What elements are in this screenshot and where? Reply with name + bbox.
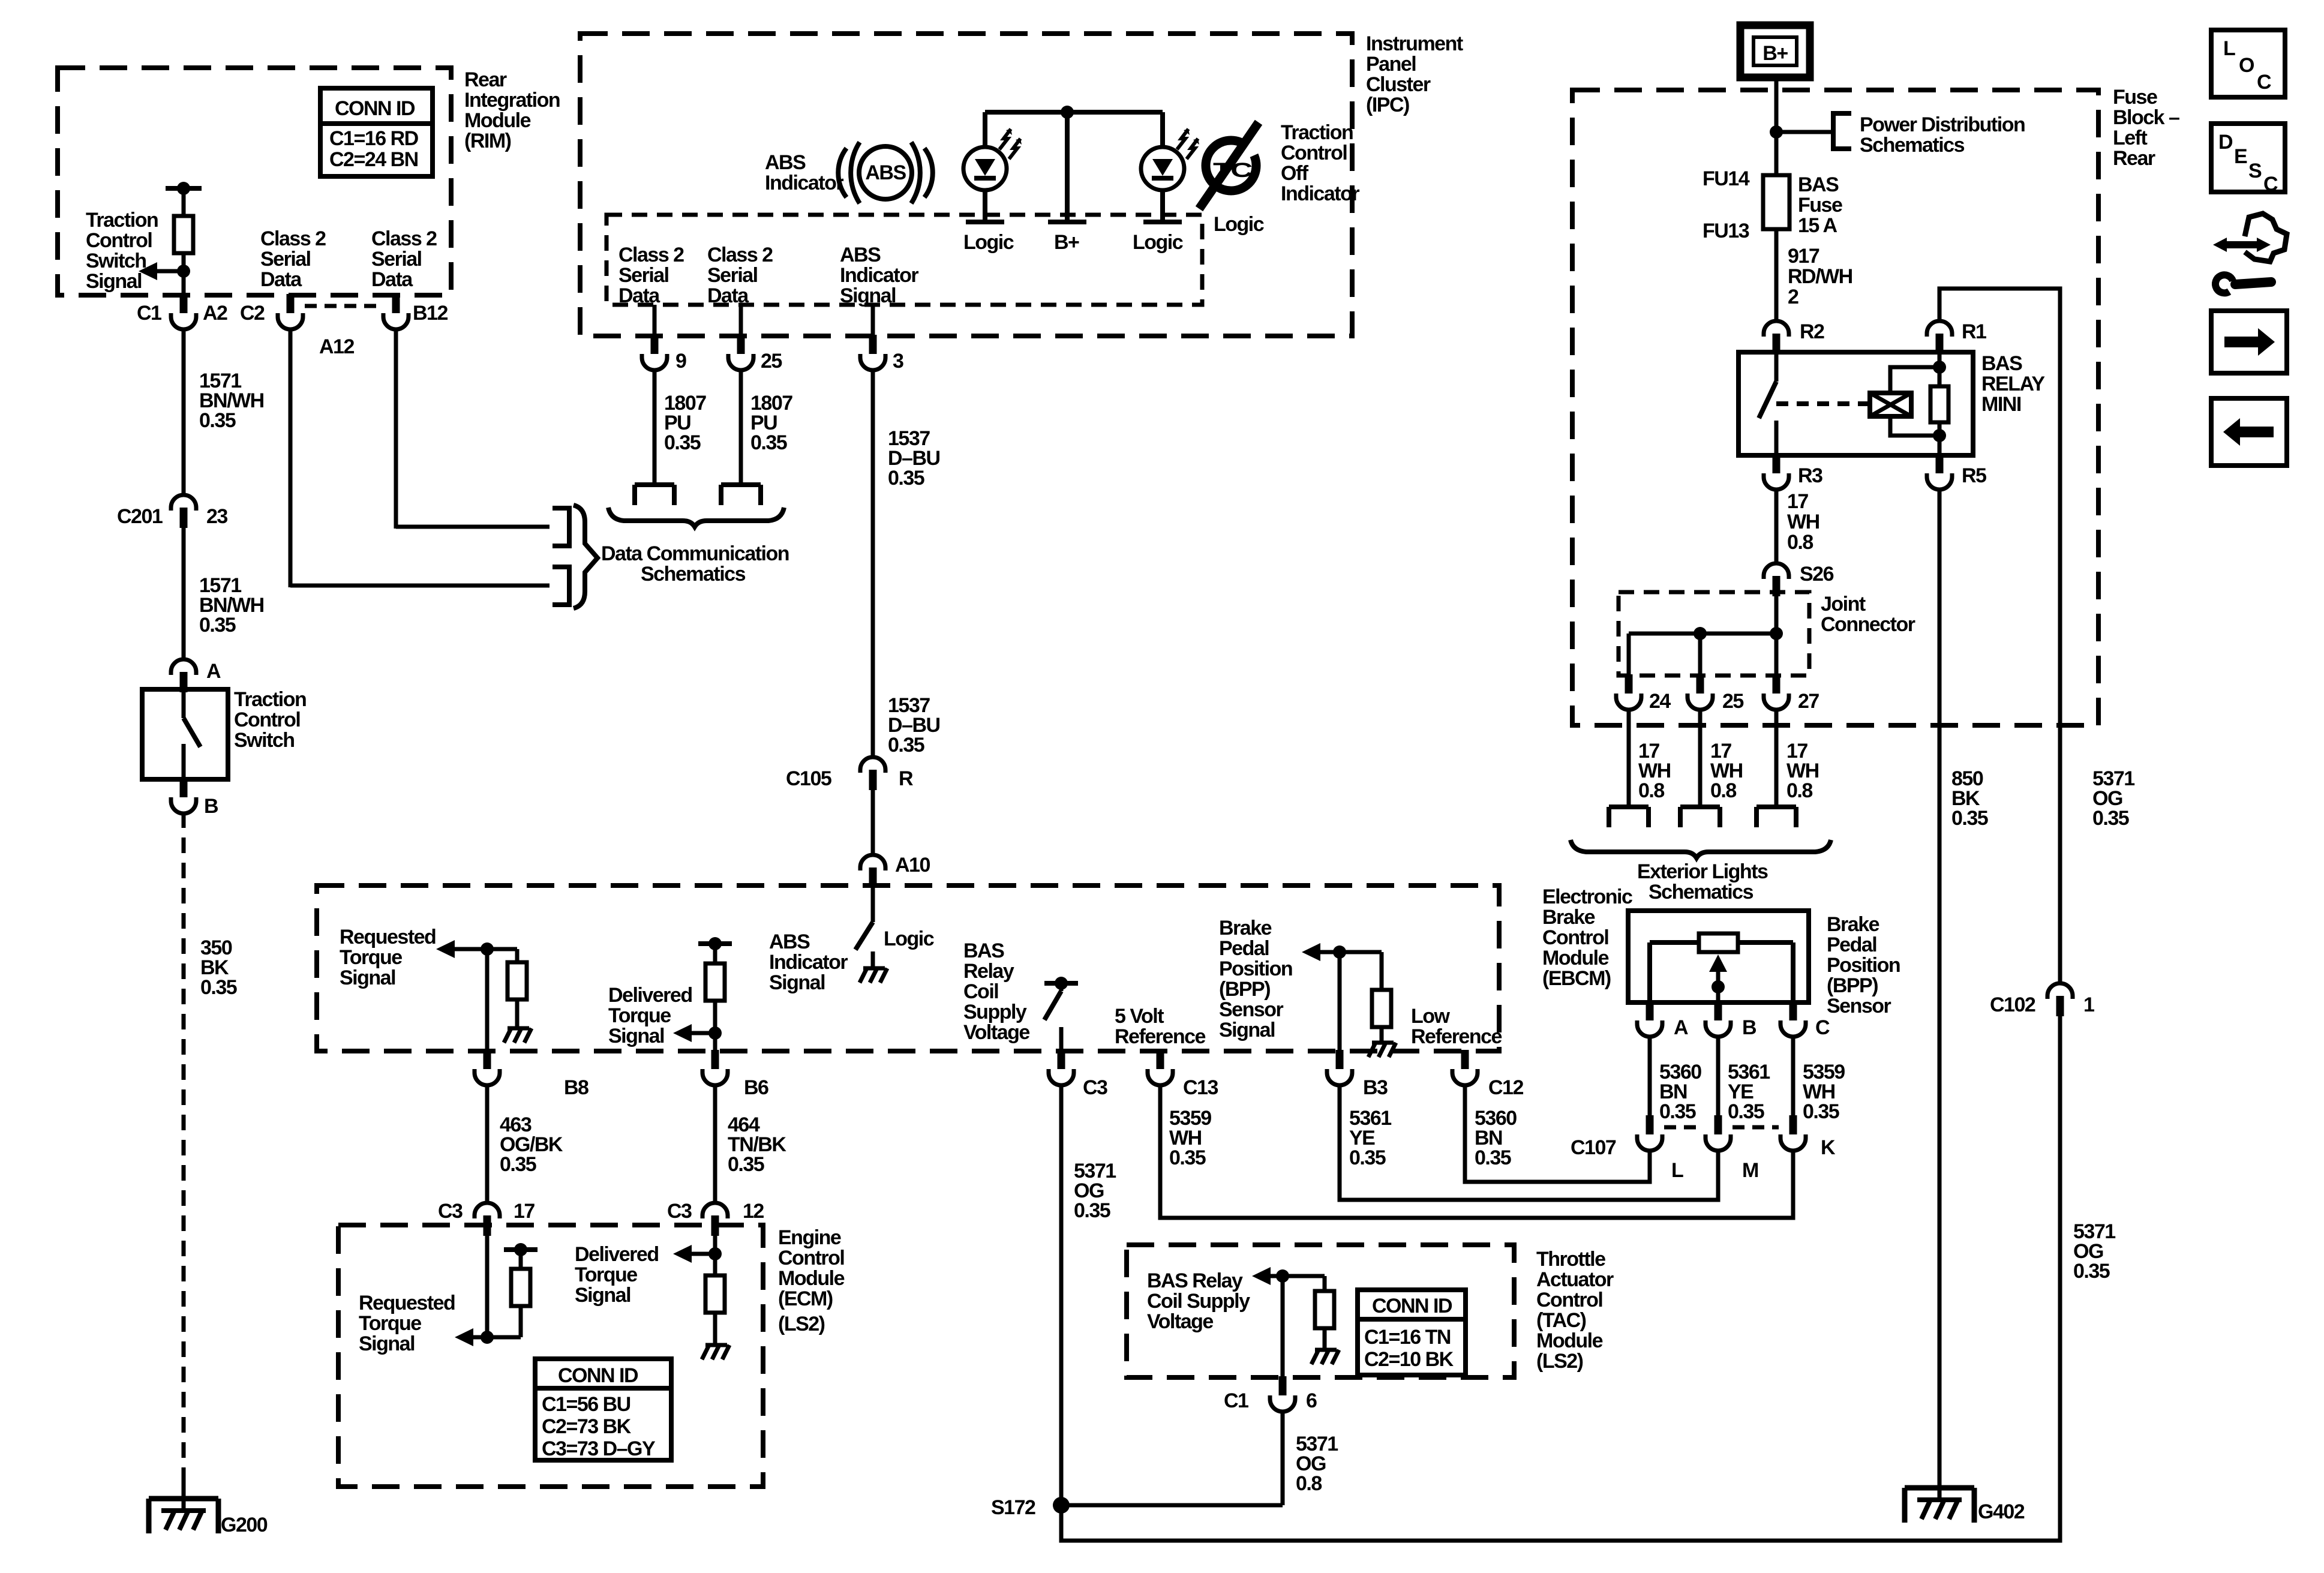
svg-text:BAS: BAS	[1981, 352, 2022, 375]
svg-text:Schematics: Schematics	[641, 563, 746, 586]
svg-text:Voltage: Voltage	[963, 1021, 1029, 1044]
resistor requested torque ECM	[511, 1250, 530, 1337]
wire B+ drop	[1048, 112, 1086, 222]
wire 5359 WH pin C	[1793, 1037, 1845, 1123]
svg-text:5 Volt: 5 Volt	[1115, 1005, 1164, 1028]
svg-text:0.8: 0.8	[1786, 779, 1812, 802]
battery B+ terminal	[1740, 25, 1810, 77]
svg-text:Signal: Signal	[359, 1332, 415, 1355]
svg-text:Torque: Torque	[340, 946, 402, 969]
svg-text:Requested: Requested	[340, 926, 436, 948]
CONN ID table (RIM)	[320, 88, 433, 176]
svg-text:Module: Module	[1536, 1329, 1603, 1352]
wire 17 WH 0.8 R3 to S26	[1776, 490, 1819, 563]
svg-text:Rear: Rear	[464, 68, 507, 91]
svg-text:R5: R5	[1962, 464, 1986, 487]
svg-text:S: S	[2248, 160, 2262, 182]
svg-text:ABS: ABS	[865, 161, 906, 184]
svg-text:BAS Relay: BAS Relay	[1147, 1269, 1243, 1292]
connector R1	[1927, 320, 1986, 354]
connector pin 25	[728, 335, 782, 373]
svg-text:Control: Control	[1536, 1289, 1602, 1311]
svg-text:Voltage: Voltage	[1147, 1310, 1213, 1333]
label Joint Connector	[1821, 593, 1915, 636]
icon ABS indicator	[838, 142, 933, 203]
wire 464 TN/BK	[715, 1086, 786, 1202]
svg-text:Reference: Reference	[1115, 1025, 1206, 1048]
underbrace data communication	[608, 508, 784, 527]
svg-text:Indicator: Indicator	[840, 264, 918, 287]
inner logic box IPC	[606, 215, 1202, 305]
svg-text:C3: C3	[438, 1200, 463, 1223]
wire arrow BPP sensor signal	[1302, 943, 1382, 961]
svg-text:25: 25	[761, 350, 782, 373]
wire S172 to C102 bottom run	[1061, 1016, 2060, 1541]
svg-text:1: 1	[2083, 993, 2094, 1016]
wire 5359 WH from C13	[1160, 1086, 1793, 1218]
svg-text:(TAC): (TAC)	[1536, 1309, 1586, 1332]
svg-text:(LS2): (LS2)	[1536, 1350, 1583, 1373]
svg-text:Traction: Traction	[86, 209, 158, 232]
svg-text:Signal: Signal	[575, 1284, 630, 1307]
svg-text:Traction: Traction	[1281, 121, 1353, 144]
svg-text:0.8: 0.8	[1787, 531, 1813, 554]
underbrace exterior lights	[1571, 840, 1831, 858]
svg-text:(BPP): (BPP)	[1219, 978, 1270, 1001]
svg-text:C1=16 RD: C1=16 RD	[329, 127, 419, 150]
label Rear Integration Module (RIM)	[464, 68, 560, 152]
ABS indicator logic switch	[855, 888, 873, 967]
svg-text:Class 2: Class 2	[371, 227, 437, 250]
svg-text:C3=73 D–GY: C3=73 D–GY	[542, 1437, 656, 1460]
svg-text:(ECM): (ECM)	[778, 1287, 833, 1310]
svg-text:Delivered: Delivered	[575, 1243, 659, 1266]
svg-text:M: M	[1742, 1159, 1758, 1182]
BAS relay coil supply switch	[1044, 977, 1078, 1051]
svg-text:Torque: Torque	[359, 1312, 421, 1335]
wire B+ rail	[985, 106, 1163, 119]
svg-text:CONN ID: CONN ID	[335, 97, 415, 120]
resistor delivered torque EBCM	[705, 944, 725, 1051]
svg-text:B3: B3	[1363, 1076, 1388, 1099]
svg-text:Signal: Signal	[340, 966, 395, 989]
svg-text:Position: Position	[1219, 957, 1292, 980]
ground internal requested torque	[504, 1028, 532, 1043]
svg-text:Signal: Signal	[86, 270, 142, 293]
connector C107 pin L	[1571, 1115, 1683, 1182]
svg-text:25: 25	[1722, 690, 1743, 713]
svg-text:Fuse: Fuse	[2113, 86, 2157, 109]
label Data Communication Schematics	[601, 542, 789, 586]
wire 1537 D-BU from pin 3 to C105	[873, 369, 940, 756]
svg-text:0.8: 0.8	[1638, 779, 1664, 802]
connector C3 pin 17 ECM	[438, 1200, 535, 1236]
svg-text:Reference: Reference	[1411, 1025, 1502, 1048]
relay coil wiring	[1890, 361, 1946, 442]
wire stub class2 left	[653, 305, 657, 336]
svg-text:6: 6	[1306, 1389, 1317, 1412]
svg-text:0.35: 0.35	[664, 431, 701, 454]
svg-text:ABS: ABS	[769, 930, 810, 953]
svg-text:Logic: Logic	[884, 927, 934, 950]
wire arrow requested torque	[436, 940, 517, 958]
connector C107 pin K	[1780, 1115, 1836, 1159]
connector R2	[1764, 320, 1824, 354]
resistor internal RIM	[174, 216, 193, 253]
svg-text:Module: Module	[1542, 947, 1609, 969]
label Throttle Actuator Control (TAC) Module (LS2)	[1536, 1248, 1614, 1373]
svg-text:0.35: 0.35	[199, 409, 236, 432]
svg-text:24: 24	[1649, 690, 1671, 713]
relay box BAS RELAY MINI	[1739, 352, 1973, 455]
wire 917 RD/WH 2	[1776, 229, 1852, 320]
node T-bar delivered torque	[698, 937, 732, 950]
svg-text:17: 17	[1787, 490, 1808, 513]
svg-text:Schematics: Schematics	[1860, 134, 1965, 157]
resistor requested torque EBCM	[508, 949, 527, 1027]
svg-text:23: 23	[206, 505, 227, 528]
wire LED2 bottom	[1143, 190, 1182, 222]
svg-text:Brake: Brake	[1827, 913, 1879, 936]
svg-text:C105: C105	[786, 767, 831, 790]
wire 5360 BN from C12	[1465, 1086, 1650, 1182]
resistor delivered torque ECM	[705, 1275, 725, 1344]
wire arrow delivered torque ECM	[673, 1245, 722, 1263]
wire arrow delivered torque	[673, 1024, 722, 1042]
resistor BPP signal EBCM	[1372, 952, 1391, 1041]
svg-text:B12: B12	[413, 302, 448, 325]
label Delivered Torque Signal (EBCM)	[608, 984, 692, 1047]
svg-text:L: L	[2223, 37, 2235, 60]
svg-text:Class 2: Class 2	[260, 227, 326, 250]
wire 350 BK to G200 (dashed)	[184, 812, 237, 1512]
svg-text:15 A: 15 A	[1798, 214, 1837, 237]
connector C2 pin A12	[240, 294, 354, 358]
svg-text:C13: C13	[1183, 1076, 1218, 1099]
svg-text:Sensor: Sensor	[1219, 998, 1284, 1021]
svg-text:Connector: Connector	[1821, 613, 1915, 636]
potentiometer BPP	[1650, 933, 1793, 1002]
svg-text:Data: Data	[618, 284, 660, 307]
wire 5361 YE pin B	[1718, 1037, 1770, 1123]
svg-text:17: 17	[514, 1200, 535, 1223]
label ABS Indicator Signal (EBCM)	[769, 930, 848, 994]
svg-text:S26: S26	[1800, 563, 1834, 586]
ground internal ECM	[702, 1345, 729, 1359]
svg-text:Serial: Serial	[371, 248, 422, 271]
wire label 5371 OG upper	[2092, 767, 2134, 830]
traction control switch box	[142, 689, 228, 779]
CONN ID table (TAC)	[1358, 1290, 1466, 1375]
label Traction Control Switch	[234, 688, 306, 752]
LED ABS indicator lamp	[963, 129, 1022, 190]
svg-text:A12: A12	[319, 335, 354, 358]
svg-text:0.35: 0.35	[728, 1153, 764, 1176]
wire 5371 OG EBCM to S172	[1061, 1086, 1116, 1505]
wire label 5371 OG lower	[2073, 1220, 2115, 1283]
connector S26	[1764, 563, 1834, 596]
icon box arrow left	[2211, 398, 2287, 466]
wire	[290, 584, 550, 588]
svg-text:0.35: 0.35	[750, 431, 787, 454]
svg-text:B: B	[204, 795, 218, 818]
svg-text:R: R	[899, 767, 913, 790]
wire	[182, 188, 186, 216]
icon traction control off TC	[1199, 122, 1274, 209]
svg-text:CONN ID: CONN ID	[1372, 1295, 1452, 1317]
connector pin B BPP	[1706, 1001, 1756, 1039]
svg-text:917: 917	[1788, 245, 1819, 268]
svg-text:B+: B+	[1054, 231, 1079, 254]
svg-text:Pedal: Pedal	[1219, 937, 1269, 960]
svg-text:0.35: 0.35	[200, 976, 237, 999]
svg-text:G200: G200	[221, 1514, 268, 1536]
module box RIM	[58, 68, 451, 295]
svg-text:Throttle: Throttle	[1536, 1248, 1605, 1271]
ground internal TAC	[1311, 1350, 1339, 1364]
wire 1571 BN/WH from A2 to C201	[184, 328, 264, 494]
wire to power distribution	[1776, 130, 1831, 134]
brace to data communication schematics	[574, 505, 597, 608]
svg-text:Data Communication: Data Communication	[601, 542, 789, 565]
connector pin C BPP	[1780, 1001, 1830, 1039]
svg-text:Control: Control	[86, 229, 152, 252]
svg-text:Off: Off	[1281, 162, 1309, 185]
svg-text:A2: A2	[203, 302, 227, 325]
resistor TAC	[1315, 1276, 1334, 1349]
wire 5371 OG 0.8	[1283, 1412, 1338, 1505]
svg-text:0.35: 0.35	[888, 734, 924, 757]
svg-text:A: A	[206, 660, 221, 683]
svg-text:C12: C12	[1488, 1076, 1523, 1099]
svg-text:Rear: Rear	[2113, 147, 2155, 170]
svg-text:E: E	[2234, 145, 2247, 168]
svg-text:C107: C107	[1571, 1136, 1616, 1159]
svg-text:S172: S172	[991, 1496, 1035, 1519]
svg-text:ABS: ABS	[765, 151, 806, 174]
svg-text:Electronic: Electronic	[1542, 885, 1632, 908]
svg-text:Indicator: Indicator	[765, 172, 843, 194]
label ABS Indicator Signal (IPC)	[840, 244, 918, 307]
off-page bracket upper	[553, 508, 569, 546]
module box ECM	[338, 1225, 763, 1487]
connector A traction control switch	[171, 659, 221, 692]
svg-text:R2: R2	[1800, 320, 1824, 343]
label Low Reference	[1411, 1005, 1502, 1048]
ground internal logic	[860, 968, 887, 983]
svg-text:Indicator: Indicator	[1281, 182, 1359, 205]
icon box DESC	[2211, 124, 2285, 196]
connector A10 EBCM	[860, 854, 930, 888]
label Traction Control Switch Signal	[86, 209, 158, 293]
svg-text:Instrument: Instrument	[1366, 32, 1463, 55]
wire C3-17 internal ECM	[485, 1236, 490, 1337]
wire from A12 to data communication	[289, 328, 293, 587]
svg-text:O: O	[2239, 54, 2254, 77]
label 5 Volt Reference	[1115, 1005, 1206, 1048]
svg-text:C3: C3	[667, 1200, 692, 1223]
label Brake Pedal Position (BPP) Sensor Signal (EBCM)	[1219, 917, 1292, 1041]
svg-text:Relay: Relay	[963, 960, 1014, 983]
connector R3	[1764, 454, 1822, 490]
svg-text:FU13: FU13	[1703, 220, 1749, 242]
off-page bracket lower	[553, 567, 569, 605]
wire dashed connector link C2-B12	[305, 304, 382, 308]
svg-text:Low: Low	[1411, 1005, 1451, 1028]
svg-text:(RIM): (RIM)	[464, 130, 511, 152]
icon wrench and arrows	[2213, 214, 2287, 293]
connector C1 pin 6 TAC	[1224, 1376, 1317, 1412]
svg-text:C3: C3	[1083, 1076, 1107, 1099]
svg-text:C1=16 TN: C1=16 TN	[1364, 1326, 1451, 1349]
wire R1 feed	[1939, 289, 2060, 981]
wire from B12 to data communication	[394, 328, 398, 529]
label Delivered Torque Signal (ECM)	[575, 1243, 659, 1307]
relay resistor	[1930, 354, 1948, 455]
svg-text:C1: C1	[1224, 1389, 1248, 1412]
svg-text:RELAY: RELAY	[1981, 373, 2045, 395]
connector B traction control switch	[171, 778, 218, 818]
svg-text:Actuator: Actuator	[1536, 1268, 1614, 1291]
svg-text:Coil: Coil	[963, 980, 998, 1003]
module box IPC	[580, 34, 1352, 336]
wire 5360 BN pin A	[1650, 1037, 1701, 1123]
connector pin 24	[1616, 674, 1671, 713]
svg-text:Traction: Traction	[234, 688, 306, 711]
label Exterior Lights Schematics	[1637, 860, 1768, 903]
label Fuse Block - Left Rear	[2113, 86, 2179, 170]
label Electronic Brake Control Module (EBCM)	[1542, 885, 1632, 990]
connector pin 27	[1764, 674, 1819, 713]
wire LED2 top	[1160, 112, 1165, 147]
svg-text:Switch: Switch	[234, 729, 295, 752]
label Requested Torque Signal (EBCM)	[340, 926, 436, 989]
svg-text:Torque: Torque	[608, 1004, 671, 1027]
label Power Distribution Schematics	[1860, 113, 2025, 157]
module box TAC	[1127, 1245, 1514, 1377]
wire S26 into joint connector	[1774, 596, 1779, 676]
svg-text:0.35: 0.35	[500, 1153, 536, 1176]
svg-text:C: C	[2263, 173, 2278, 196]
off-page goalpost 24	[1609, 807, 1649, 827]
svg-text:G402: G402	[1978, 1500, 2025, 1523]
svg-text:0.35: 0.35	[199, 614, 236, 637]
svg-text:Position: Position	[1827, 954, 1900, 977]
svg-text:TC: TC	[1213, 159, 1252, 182]
wire joint connector rail	[1629, 627, 1783, 676]
svg-text:27: 27	[1798, 690, 1819, 713]
svg-text:ABS: ABS	[840, 244, 881, 266]
svg-text:Sensor: Sensor	[1827, 995, 1891, 1017]
svg-text:Control: Control	[1542, 926, 1608, 949]
wire arrow requested torque ECM	[455, 1328, 521, 1346]
svg-text:Class 2: Class 2	[618, 244, 684, 266]
svg-text:C2=73 BK: C2=73 BK	[542, 1415, 632, 1438]
svg-text:R3: R3	[1798, 464, 1822, 487]
svg-text:Control: Control	[1281, 142, 1347, 164]
svg-text:A10: A10	[895, 854, 930, 876]
svg-text:D: D	[2218, 131, 2233, 154]
svg-text:Serial: Serial	[618, 264, 669, 287]
joint connector box	[1619, 592, 1809, 676]
BPP sensor box	[1628, 911, 1809, 1002]
wire stub class2 right	[739, 305, 743, 336]
connector C3 EBCM	[1049, 1050, 1107, 1099]
off-page goalpost pin 25	[721, 485, 761, 505]
svg-text:Cluster: Cluster	[1366, 73, 1431, 96]
svg-text:BAS: BAS	[1798, 173, 1839, 196]
wire stub abs signal	[871, 305, 875, 336]
connector C2 pin B12	[383, 294, 448, 329]
label BAS Relay Coil Supply Voltage (TAC)	[1147, 1269, 1250, 1333]
svg-text:Torque: Torque	[575, 1263, 637, 1286]
svg-text:Control: Control	[234, 709, 300, 731]
off-page goalpost pin 9	[635, 485, 674, 505]
svg-text:(LS2): (LS2)	[778, 1313, 825, 1335]
svg-text:0.35: 0.35	[1349, 1146, 1386, 1169]
wire 17 WH 0.8 pin 24	[1629, 710, 1671, 806]
svg-text:0.35: 0.35	[888, 467, 924, 490]
connector C102 pin 1	[1990, 983, 2094, 1016]
svg-text:Joint: Joint	[1821, 593, 1866, 616]
icon box arrow right	[2211, 311, 2287, 373]
wire	[396, 525, 550, 529]
svg-text:0.35: 0.35	[2092, 807, 2129, 830]
svg-text:Brake: Brake	[1542, 906, 1595, 929]
svg-text:0.35: 0.35	[1659, 1100, 1696, 1123]
svg-text:Signal: Signal	[1219, 1019, 1275, 1041]
svg-text:Requested: Requested	[359, 1292, 455, 1314]
svg-text:(IPC): (IPC)	[1366, 94, 1409, 116]
label BAS Fuse 15 A	[1798, 173, 1842, 237]
label Requested Torque Signal (ECM)	[359, 1292, 455, 1355]
connector B6	[702, 1050, 768, 1099]
wire 5361 YE from B3	[1340, 1086, 1718, 1200]
svg-text:Indicator: Indicator	[769, 951, 848, 974]
connector C107 pin M	[1706, 1115, 1758, 1182]
svg-text:Class 2: Class 2	[707, 244, 773, 266]
connector C12	[1452, 1050, 1523, 1099]
svg-text:Pedal: Pedal	[1827, 933, 1876, 956]
svg-text:C2=10 BK: C2=10 BK	[1364, 1348, 1454, 1371]
wire arrow BAS relay coil supply TAC	[1252, 1267, 1325, 1285]
svg-text:Data: Data	[260, 268, 302, 291]
connector pin 25	[1688, 674, 1743, 713]
svg-text:WH: WH	[1787, 511, 1819, 533]
svg-text:2: 2	[1788, 286, 1798, 308]
fuse BAS FU14/FU13	[1703, 167, 1789, 242]
wire 463 OG/BK	[487, 1086, 563, 1202]
svg-text:0.8: 0.8	[1710, 779, 1736, 802]
connector C105 pin R	[786, 757, 913, 790]
node T-bar internal RIM	[166, 182, 202, 195]
svg-text:R1: R1	[1962, 320, 1986, 343]
wire B8 internal	[485, 949, 490, 1051]
wire 1571 BN/WH from C201 to switch	[184, 528, 264, 659]
connector pin A BPP	[1637, 1001, 1688, 1039]
svg-text:A: A	[1674, 1016, 1688, 1039]
connector C13	[1148, 1050, 1218, 1099]
wire C3-12 internal ECM	[713, 1236, 717, 1275]
relay coil	[1870, 393, 1911, 416]
svg-text:0.35: 0.35	[1169, 1146, 1206, 1169]
label Class 2 Serial Data (RIM left)	[260, 227, 326, 291]
connector pin 9	[642, 335, 686, 373]
svg-text:Module: Module	[778, 1267, 845, 1290]
module box EBCM	[317, 885, 1499, 1051]
wire 1537 D-BU from C105 to A10	[873, 694, 940, 854]
svg-text:Logic: Logic	[1133, 231, 1183, 254]
